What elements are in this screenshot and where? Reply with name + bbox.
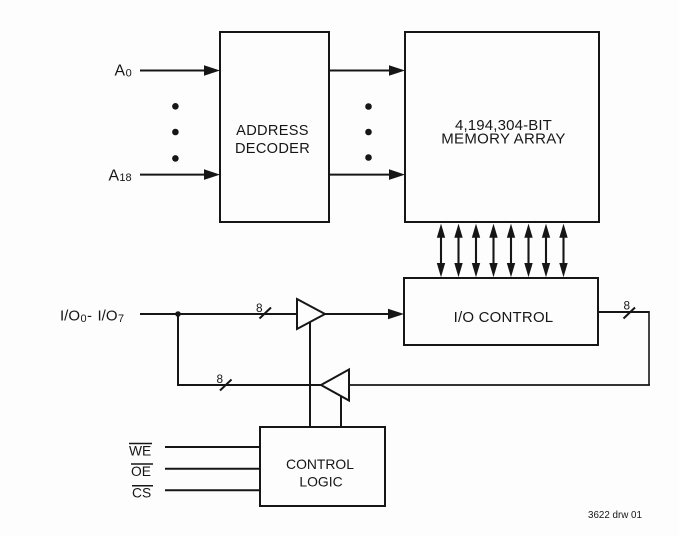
wire: bidirectional bus arrow 1 memory array/I-O control (437, 224, 445, 278)
wire: output feedback right vertical (648, 311, 650, 385)
wire: bidirectional bus arrow 7 memory array/I-O control (542, 224, 550, 278)
label I/O0 - I/O7 (60, 308, 124, 326)
svg-text:CONTROL: CONTROL (286, 456, 354, 472)
svg-text:8: 8 (624, 299, 631, 313)
wire: bidirectional bus arrow 4 memory array/I-O control (489, 224, 497, 278)
buffer: input buffer triangle (297, 299, 325, 329)
label WE with overline (129, 444, 152, 459)
svg-text:0: 0 (81, 313, 87, 325)
svg-text:MEMORY ARRAY: MEMORY ARRAY (441, 131, 565, 148)
svg-text:8: 8 (256, 301, 263, 315)
wire: bidirectional bus arrow 2 memory array/I-O control (454, 224, 462, 278)
wire: bidirectional bus arrow 6 memory array/I-O control (524, 224, 532, 278)
label A0 (115, 63, 132, 80)
svg-text:OE: OE (131, 464, 151, 479)
block U3: I/O CONTROL box (404, 278, 598, 345)
svg-text:LOGIC: LOGIC (299, 474, 342, 490)
wire: control line from control logic to input buffer (309, 323, 311, 428)
svg-text:WE: WE (129, 444, 151, 459)
svg-text:DECODER: DECODER (235, 141, 310, 157)
svg-text:0: 0 (126, 68, 132, 80)
wire: bidirectional bus arrow 8 memory array/I-O control (559, 224, 567, 278)
bus width label 8 on input line (256, 301, 271, 319)
svg-text:18: 18 (119, 172, 131, 184)
wire: feedback line from buffer tip to left vertical (178, 384, 321, 386)
bus width label 8 on output line (624, 299, 636, 319)
svg-text:7: 7 (118, 313, 124, 325)
label OE with overline (131, 464, 153, 479)
svg-text:CS: CS (132, 486, 151, 501)
wire: A0 input arrow into address decoder (140, 65, 220, 76)
wire: address decoder to memory array (top arrow) (329, 65, 405, 76)
block U2: 4,194,304-BIT MEMORY ARRAY box (405, 32, 599, 222)
wire: OE input line (165, 468, 260, 470)
svg-text:A: A (115, 63, 126, 80)
wire: CS input line (165, 489, 260, 491)
svg-text:I/O: I/O (98, 308, 118, 325)
wire: I/O input line to output buffer (140, 313, 297, 315)
wire: bidirectional bus arrow 5 memory array/I-O control (507, 224, 515, 278)
ellipsis dots between decoder buses (365, 103, 372, 161)
svg-text:3622 drw 01: 3622 drw 01 (588, 510, 642, 521)
wire: WE input line (165, 446, 260, 448)
svg-text:ADDRESS: ADDRESS (236, 123, 309, 139)
block U1: ADDRESS DECODER box (220, 32, 329, 222)
bus width label 8 on feedback line (217, 372, 232, 391)
wire: buffer output into I/O control with arrowhead (325, 309, 404, 320)
block U4: CONTROL LOGIC box (260, 427, 385, 506)
node: junction on I/O line (175, 311, 181, 317)
svg-text:8: 8 (217, 372, 224, 386)
svg-text:I/O: I/O (60, 308, 80, 325)
wire: A18 input arrow into address decoder (140, 169, 220, 180)
buffer: feedback buffer triangle pointing left (321, 370, 349, 401)
wire: bidirectional bus arrow 3 memory array/I-O control (472, 224, 480, 278)
wire: feedback bottom horizontal to inverted buffer (349, 384, 650, 386)
svg-text:A: A (109, 168, 120, 185)
wire: left vertical from I/O junction down (177, 314, 179, 386)
wire: control line from control logic to feedback buffer (340, 396, 342, 427)
label CS with overline (132, 486, 153, 501)
label A18 (109, 168, 132, 185)
svg-text:-: - (87, 308, 92, 325)
wire: I/O control output right side (598, 311, 649, 313)
wire: address decoder to memory array (bottom arrow) (329, 169, 405, 180)
svg-text:I/O CONTROL: I/O CONTROL (454, 309, 554, 326)
ellipsis dots between A0 and A18 (172, 103, 179, 162)
